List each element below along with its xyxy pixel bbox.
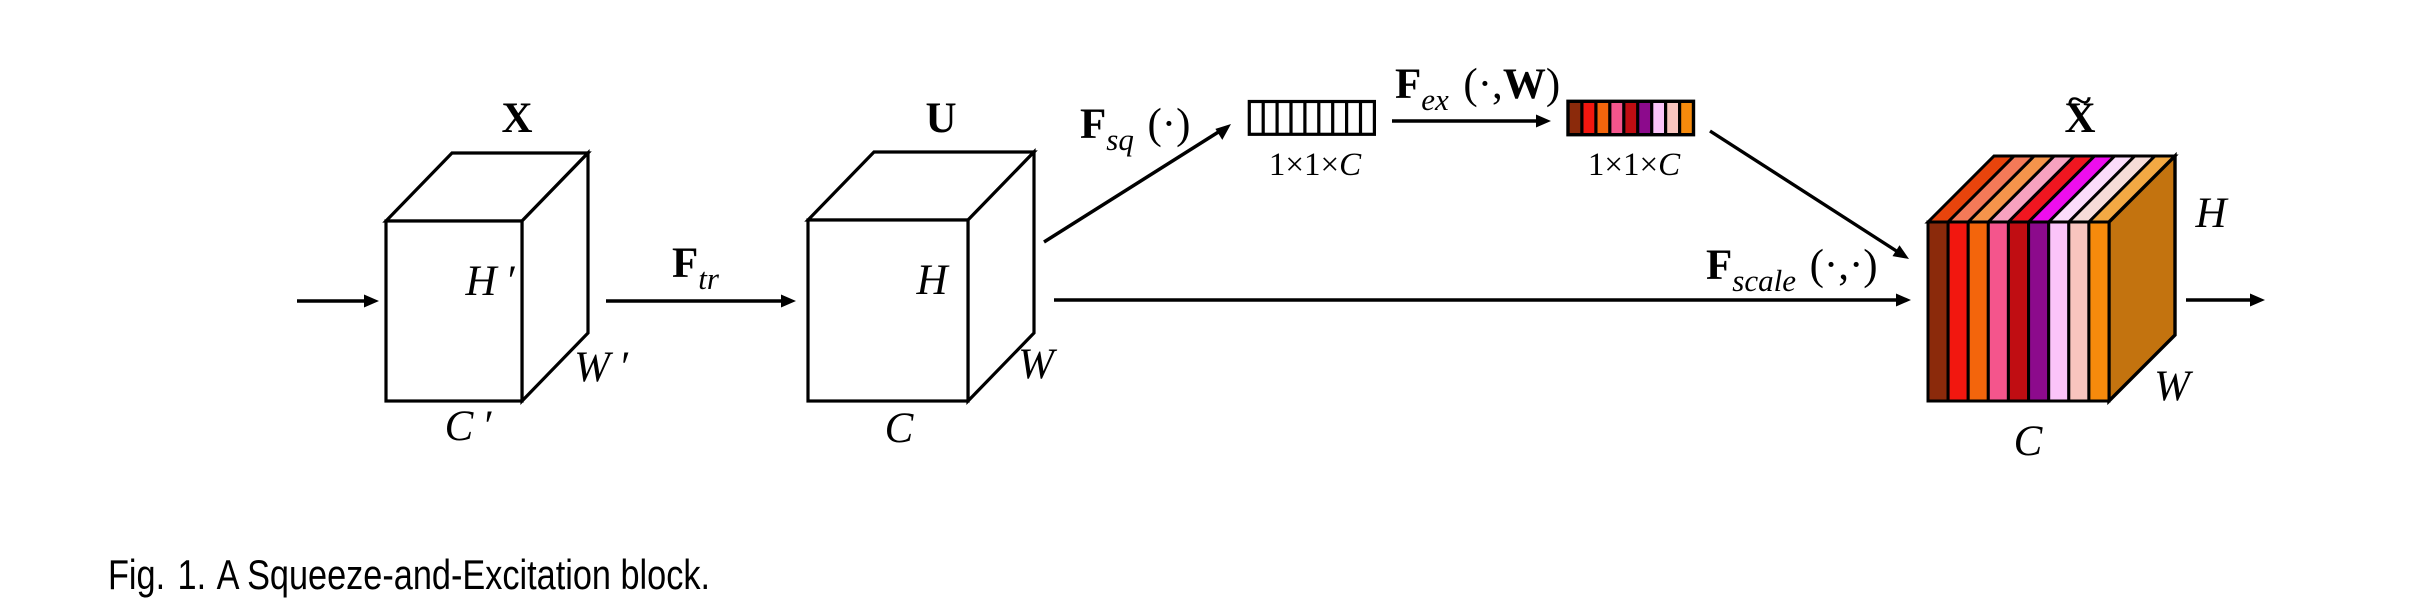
svg-text:W: W: [1018, 341, 1058, 388]
squeeze vector (white bar): [1249, 102, 1374, 135]
svg-text:Fig. 1. A Squeeze-and-Excita: Fig. 1. A Squeeze-and-Excitation block.: [108, 551, 710, 598]
svg-text:1×1×C: 1×1×C: [1269, 147, 1362, 183]
output arrow: [2186, 294, 2265, 307]
F_sq arrow (diagonal up): [1044, 124, 1231, 242]
tensor U cube top face: [808, 152, 1034, 220]
excitation vector (colored bar): [1568, 101, 1694, 134]
tensor X cube top face: [386, 153, 588, 221]
svg-text:1×1×C: 1×1×C: [1588, 147, 1681, 183]
scale arrow (diagonal down to cube): [1710, 131, 1909, 259]
tensor X cube side face: [522, 153, 588, 401]
recalibrated tensor Xtilde: top face stripes: [1928, 156, 2175, 222]
F_ex arrow: [1392, 115, 1551, 128]
svg-text:W ′: W ′: [574, 344, 628, 391]
svg-text:H ′: H ′: [464, 258, 515, 305]
input arrow: [297, 295, 379, 308]
svg-text:C ′: C ′: [445, 403, 492, 450]
Xtilde side face: [2109, 156, 2175, 401]
tensor X cube front face: [386, 221, 522, 401]
Xtilde front face stripes: [1928, 222, 2109, 401]
svg-text:H: H: [915, 257, 949, 304]
svg-text:U: U: [925, 95, 956, 142]
svg-text:W: W: [2154, 363, 2194, 410]
colored bar grid lines: [1568, 101, 1694, 134]
svg-text:C: C: [885, 405, 915, 452]
tensor U cube front face: [808, 220, 968, 401]
F_scale arrow (long horizontal): [1054, 294, 1911, 307]
svg-text:~: ~: [2068, 83, 2091, 119]
tensor U cube side face: [968, 152, 1034, 401]
F_tr arrow: [606, 295, 796, 308]
svg-text:H: H: [2194, 190, 2228, 237]
svg-text:C: C: [2014, 418, 2044, 465]
svg-text:X: X: [501, 95, 532, 142]
